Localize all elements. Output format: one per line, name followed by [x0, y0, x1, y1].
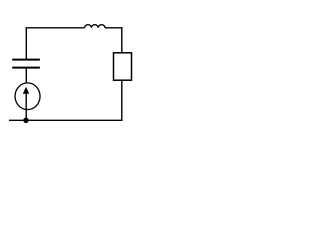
inductor L1	[85, 25, 105, 28]
current source I1	[15, 83, 40, 120]
wire left side top	[25, 27, 27, 60]
resistor R1	[114, 53, 132, 80]
wire top rail right segment	[105, 27, 122, 29]
wire right side top	[121, 27, 123, 53]
wire bottom rail	[9, 119, 123, 121]
wire top rail left segment	[26, 27, 84, 29]
capacitor C1	[12, 60, 40, 68]
wire capacitor to source	[25, 67, 27, 82]
wire right side bottom	[121, 80, 123, 120]
node junction dot	[23, 118, 28, 123]
